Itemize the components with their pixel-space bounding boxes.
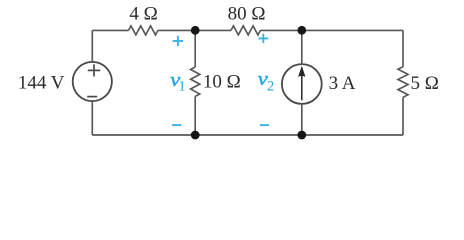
svg-text:10 Ω: 10 Ω	[203, 72, 241, 93]
svg-text:1: 1	[178, 78, 185, 94]
svg-text:2: 2	[267, 79, 274, 95]
svg-text:80 Ω: 80 Ω	[228, 4, 266, 25]
svg-text:4 Ω: 4 Ω	[129, 4, 157, 25]
svg-text:3 A: 3 A	[329, 73, 356, 94]
svg-text:144 V: 144 V	[18, 73, 65, 94]
svg-text:5 Ω: 5 Ω	[411, 73, 439, 94]
